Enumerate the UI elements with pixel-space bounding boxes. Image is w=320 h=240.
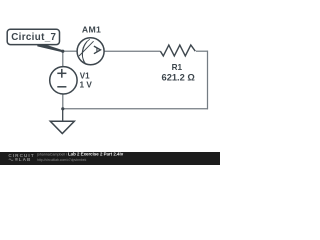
svg-text:621.2 Ω: 621.2 Ω	[162, 72, 196, 82]
svg-text:R1: R1	[172, 63, 183, 72]
svg-text:http://circuitlab.com/c7dpvbmb: http://circuitlab.com/c7dpvbmbek	[37, 158, 87, 162]
svg-text:1 V: 1 V	[80, 81, 93, 90]
svg-text:AM1: AM1	[82, 25, 101, 35]
svg-text:johannaCampbell / Lab 2 Exerci: johannaCampbell / Lab 2 Exercise 2 Part …	[36, 152, 124, 157]
svg-text:Circiut_7: Circiut_7	[11, 32, 56, 43]
svg-text:LAB: LAB	[19, 157, 32, 162]
svg-text:V1: V1	[80, 72, 90, 81]
